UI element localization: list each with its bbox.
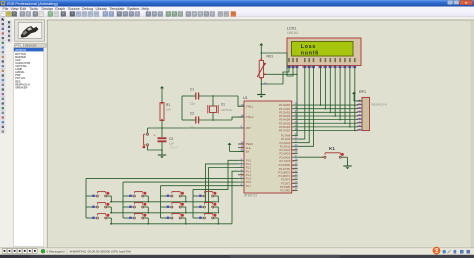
svg-text:□: □ bbox=[455, 1, 457, 5]
svg-text:AT89C51: AT89C51 bbox=[15, 48, 27, 52]
svg-text:P2.4/A12: P2.4/A12 bbox=[280, 148, 291, 152]
svg-text:P0.2/AD2: P0.2/AD2 bbox=[279, 110, 291, 114]
svg-text:C2: C2 bbox=[190, 112, 194, 116]
svg-text:K1: K1 bbox=[329, 146, 335, 151]
svg-text:ALE: ALE bbox=[246, 146, 251, 150]
svg-text:Tools: Tools bbox=[29, 7, 38, 11]
svg-text:22p: 22p bbox=[190, 102, 195, 106]
svg-text:C3: C3 bbox=[169, 137, 173, 141]
svg-text:AT89C51: AT89C51 bbox=[244, 194, 257, 198]
svg-text:P1.3: P1.3 bbox=[246, 169, 252, 173]
svg-text:PSEN: PSEN bbox=[246, 142, 253, 146]
svg-text:P3.6/WR: P3.6/WR bbox=[280, 185, 291, 189]
svg-text:P2.5/A13: P2.5/A13 bbox=[280, 152, 291, 156]
svg-text:P1.1: P1.1 bbox=[246, 162, 252, 166]
svg-text:Loss: Loss bbox=[301, 44, 316, 50]
svg-text:P3.2/INT0: P3.2/INT0 bbox=[279, 170, 291, 174]
svg-text:P: P bbox=[16, 44, 18, 48]
svg-text:+: + bbox=[154, 134, 156, 138]
svg-text:P2.2/A10: P2.2/A10 bbox=[280, 141, 291, 145]
svg-text:Edit: Edit bbox=[20, 7, 26, 11]
svg-text:RST: RST bbox=[246, 126, 252, 130]
svg-text:10k: 10k bbox=[166, 108, 171, 112]
svg-text:22p: 22p bbox=[190, 126, 195, 130]
svg-text:XTAL2: XTAL2 bbox=[246, 115, 254, 119]
svg-text:P1.7: P1.7 bbox=[246, 184, 252, 188]
svg-text:Help: Help bbox=[142, 7, 150, 11]
svg-text:1k: 1k bbox=[264, 82, 268, 86]
svg-text:P0.6/AD6: P0.6/AD6 bbox=[279, 125, 291, 129]
svg-text:Design: Design bbox=[42, 7, 53, 11]
svg-text:P0.5/AD5: P0.5/AD5 bbox=[279, 121, 291, 125]
svg-text:P1.6: P1.6 bbox=[246, 180, 252, 184]
svg-text:P1.2: P1.2 bbox=[246, 166, 252, 170]
svg-text:P0.3/AD3: P0.3/AD3 bbox=[279, 114, 291, 118]
svg-text:P3.5/T1: P3.5/T1 bbox=[281, 181, 291, 185]
svg-text:P1.5: P1.5 bbox=[246, 177, 252, 181]
svg-text:P0.1/AD1: P0.1/AD1 bbox=[279, 107, 291, 111]
svg-text:P3.0/RXD: P3.0/RXD bbox=[279, 163, 291, 167]
svg-text:<TEXT>: <TEXT> bbox=[169, 146, 179, 150]
svg-text:Graph: Graph bbox=[55, 7, 65, 11]
svg-text:P2.3/A11: P2.3/A11 bbox=[280, 144, 291, 148]
svg-text:U1: U1 bbox=[243, 96, 248, 100]
svg-text:P3.4/T0: P3.4/T0 bbox=[281, 178, 291, 182]
svg-text:nunt6: nunt6 bbox=[301, 50, 319, 56]
svg-text:P2.1/A9: P2.1/A9 bbox=[281, 137, 291, 141]
svg-text:X1: X1 bbox=[221, 103, 225, 107]
svg-text:Debug: Debug bbox=[82, 7, 93, 11]
svg-text:1uF: 1uF bbox=[169, 141, 174, 145]
svg-text:P3.1/TXD: P3.1/TXD bbox=[279, 167, 290, 171]
svg-text:P0.7/AD7: P0.7/AD7 bbox=[279, 129, 291, 133]
svg-text:P1.4: P1.4 bbox=[246, 173, 252, 177]
svg-text:R1: R1 bbox=[166, 103, 170, 107]
svg-text:EA: EA bbox=[246, 150, 250, 154]
svg-text:P0.0/AD0: P0.0/AD0 bbox=[279, 103, 291, 107]
svg-text:P3.7/RD: P3.7/RD bbox=[280, 189, 290, 193]
svg-text:0 Message(s): 0 Message(s) bbox=[47, 250, 65, 254]
svg-text:File: File bbox=[3, 7, 9, 11]
svg-text:RP1: RP1 bbox=[359, 90, 366, 94]
svg-text:ANIMATING: 00:00:00.050000 (CP: ANIMATING: 00:00:00.050000 (CPU load 5%) bbox=[70, 250, 131, 254]
svg-text:System: System bbox=[127, 7, 139, 11]
svg-text:SPEAKER: SPEAKER bbox=[15, 85, 27, 89]
svg-text:RV1: RV1 bbox=[267, 55, 274, 59]
svg-text:P3.3/INT1: P3.3/INT1 bbox=[279, 174, 291, 178]
svg-text:P2.6/A14: P2.6/A14 bbox=[280, 155, 291, 159]
svg-text:C1: C1 bbox=[190, 88, 194, 92]
svg-text:ISIS Professional (Animating): ISIS Professional (Animating) bbox=[7, 1, 59, 6]
svg-text:P2.7/A15: P2.7/A15 bbox=[280, 159, 291, 163]
svg-text:_: _ bbox=[448, 1, 451, 5]
svg-text:Library: Library bbox=[96, 7, 107, 11]
svg-text:P2.0/A8: P2.0/A8 bbox=[281, 134, 291, 138]
svg-text:Template: Template bbox=[110, 7, 125, 11]
svg-text:LM016L: LM016L bbox=[287, 31, 299, 35]
svg-text:RESPACK-8: RESPACK-8 bbox=[372, 102, 388, 106]
svg-text:P0.4/AD4: P0.4/AD4 bbox=[279, 118, 291, 122]
svg-text:L: L bbox=[20, 44, 22, 48]
svg-text:XTAL1: XTAL1 bbox=[246, 104, 254, 108]
svg-text:CRYSTAL: CRYSTAL bbox=[221, 108, 233, 112]
svg-text:Source: Source bbox=[68, 7, 80, 11]
svg-text:View: View bbox=[11, 7, 19, 11]
svg-text:DEVICES: DEVICES bbox=[25, 44, 37, 48]
svg-text:P1.0: P1.0 bbox=[246, 158, 252, 162]
